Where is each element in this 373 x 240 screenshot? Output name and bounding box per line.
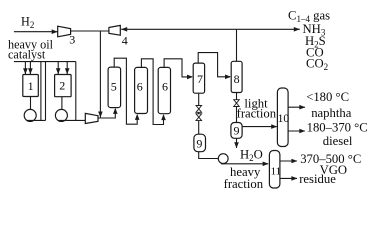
svg-text:fraction: fraction <box>224 177 264 191</box>
svg-text:4: 4 <box>122 33 128 47</box>
svg-text:<180 °C: <180 °C <box>306 90 349 104</box>
svg-text:3: 3 <box>69 32 75 46</box>
svg-text:1: 1 <box>28 79 34 93</box>
svg-text:5: 5 <box>111 79 117 93</box>
svg-text:11: 11 <box>271 166 282 178</box>
svg-text:fraction: fraction <box>237 106 277 120</box>
svg-text:8: 8 <box>234 72 240 86</box>
svg-text:10: 10 <box>278 113 290 125</box>
svg-text:6: 6 <box>137 80 143 94</box>
svg-text:9: 9 <box>234 123 240 137</box>
svg-text:6: 6 <box>162 80 168 94</box>
svg-text:9: 9 <box>196 137 202 151</box>
svg-text:7: 7 <box>197 72 203 86</box>
svg-text:naphtha: naphtha <box>311 106 352 120</box>
svg-text:diesel: diesel <box>323 134 353 148</box>
svg-text:residue: residue <box>299 172 336 186</box>
svg-text:catalyst: catalyst <box>8 47 46 61</box>
svg-text:180–370 °C: 180–370 °C <box>307 121 368 135</box>
svg-text:2: 2 <box>59 79 65 93</box>
